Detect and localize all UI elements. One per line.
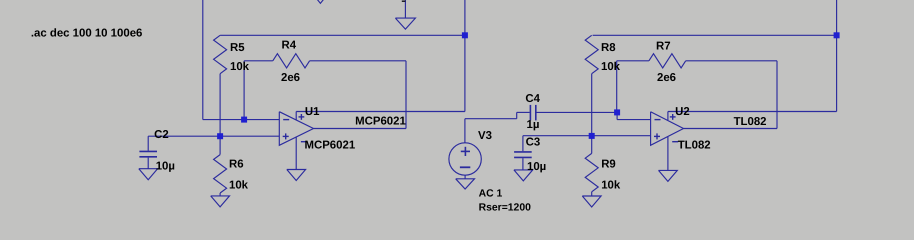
svg-text:R9: R9: [601, 159, 616, 171]
svg-text:.ac dec 100 10 100e6: .ac dec 100 10 100e6: [31, 28, 142, 40]
svg-text:U1: U1: [305, 106, 320, 118]
svg-text:R4: R4: [282, 40, 297, 52]
svg-text:10k: 10k: [229, 179, 249, 191]
svg-text:R7: R7: [656, 40, 671, 52]
svg-text:V3: V3: [478, 130, 492, 142]
svg-text:R5: R5: [230, 42, 245, 54]
svg-text:C4: C4: [525, 93, 540, 105]
svg-text:U2: U2: [675, 106, 690, 118]
svg-text:R6: R6: [229, 158, 244, 170]
svg-text:10µ: 10µ: [527, 161, 546, 173]
svg-text:10k: 10k: [230, 61, 250, 73]
svg-text:1µ: 1µ: [527, 119, 540, 131]
svg-text:AC 1: AC 1: [479, 189, 503, 200]
svg-text:MCP6021: MCP6021: [305, 140, 356, 152]
svg-text:C2: C2: [154, 129, 169, 141]
svg-text:TL082: TL082: [678, 140, 711, 152]
svg-text:Rser=1200: Rser=1200: [479, 203, 532, 214]
svg-text:C3: C3: [526, 137, 541, 149]
svg-text:10k: 10k: [601, 61, 621, 73]
svg-text:R8: R8: [601, 42, 616, 54]
svg-text:2e6: 2e6: [281, 72, 300, 84]
svg-text:2e6: 2e6: [657, 72, 676, 84]
svg-text:MCP6021: MCP6021: [355, 115, 406, 127]
svg-text:10µ: 10µ: [156, 161, 175, 173]
svg-text:10k: 10k: [601, 180, 621, 192]
svg-text:TL082: TL082: [734, 116, 767, 128]
